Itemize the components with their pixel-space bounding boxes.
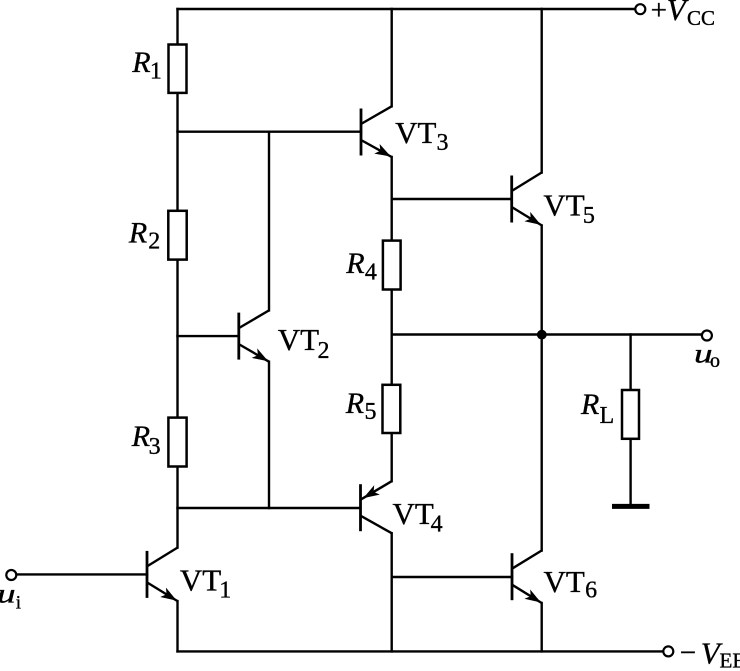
svg-text:R: R [131,420,150,453]
svg-text:o: o [710,350,720,372]
svg-text:L: L [600,403,615,429]
svg-text:R: R [131,46,150,79]
svg-text:3: 3 [149,434,161,460]
svg-text:1: 1 [150,59,162,85]
svg-text:VT: VT [543,187,584,222]
svg-text:6: 6 [585,577,597,603]
svg-text:2: 2 [148,229,160,255]
svg-text:R: R [345,247,364,280]
svg-text:VT: VT [278,322,319,357]
svg-text:EE: EE [720,649,740,671]
svg-text:+: + [651,0,667,27]
svg-text:i: i [16,593,21,614]
svg-text:VT: VT [544,564,585,599]
svg-text:5: 5 [583,203,595,229]
svg-text:VT: VT [393,496,434,531]
svg-text:VT: VT [180,563,221,598]
svg-text:u: u [0,579,16,609]
svg-text:1: 1 [219,577,231,603]
svg-text:5: 5 [365,399,377,425]
svg-text:R: R [128,217,147,250]
svg-text:CC: CC [687,6,715,30]
svg-text:V: V [667,0,689,27]
svg-text:−: − [680,637,696,669]
svg-text:2: 2 [318,338,330,364]
svg-text:4: 4 [365,260,377,286]
svg-text:4: 4 [431,512,443,538]
svg-text:3: 3 [437,130,449,156]
svg-text:R: R [580,388,599,421]
svg-text:VT: VT [395,115,436,150]
svg-text:R: R [345,387,364,420]
